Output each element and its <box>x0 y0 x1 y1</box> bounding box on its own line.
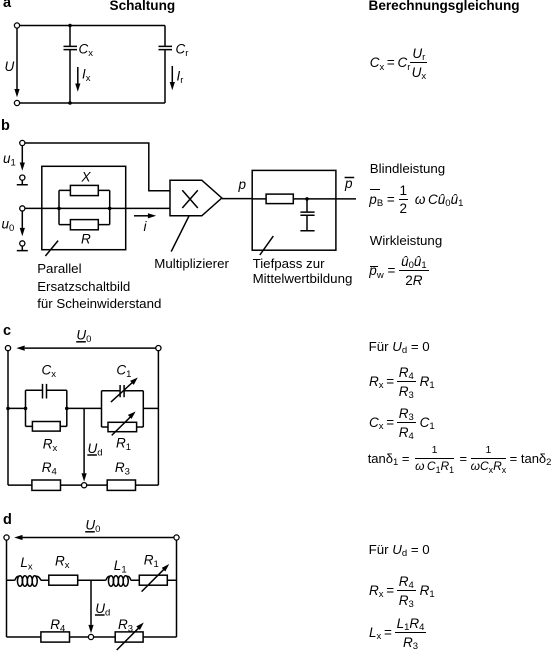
label Tiefpass zur Mittelwertbildung <box>253 256 353 287</box>
terminal u0 bottom with bar <box>17 241 28 251</box>
current arrow Ir <box>170 66 175 90</box>
label Wirkleistung <box>370 234 442 248</box>
node dot c left <box>6 407 10 411</box>
wire c right side <box>157 351 159 485</box>
wire u0 to parallel network <box>25 207 59 209</box>
label Blindleistung <box>370 162 445 176</box>
node dot left <box>57 207 61 211</box>
section label a <box>3 0 11 10</box>
terminal d top-left <box>4 535 9 540</box>
equation Lx = L1R4/R3 <box>369 616 426 650</box>
wire u1 to multiplier <box>25 143 170 191</box>
node dot combo1 left <box>24 407 28 411</box>
node dot combo1 right <box>65 407 69 411</box>
capacitor in lowpass <box>300 199 314 231</box>
adjustment arrow R1 d <box>142 564 170 592</box>
pointer line multiplier <box>171 216 189 251</box>
terminal d top-right <box>174 535 179 540</box>
svg-text:i: i <box>144 219 148 234</box>
arrow Ud d <box>88 625 93 633</box>
resistor R4 box d <box>41 632 70 642</box>
svg-text:Rx: Rx <box>55 554 70 572</box>
resistor R1 box <box>108 422 137 431</box>
arrow Ud c <box>82 473 87 481</box>
wire d left side <box>6 540 8 637</box>
label Multiplizierer <box>154 257 229 271</box>
equation Cx = R3/R4 C1 <box>369 406 435 440</box>
equation Cx = Cr Ur/Ux <box>370 46 428 80</box>
circuit a: bottom wire <box>20 102 165 104</box>
terminal u0 top <box>20 206 25 211</box>
box lowpass filter <box>252 170 336 250</box>
adjustment arrow R3 d <box>117 623 144 651</box>
terminal a bottom-left <box>14 100 19 105</box>
wire Ud tap c <box>83 408 85 473</box>
bottom wire d <box>7 636 177 638</box>
wire c left side <box>7 351 9 485</box>
resistor R3 box d <box>115 632 143 642</box>
node dot right <box>108 207 112 211</box>
terminal c top-left <box>5 346 10 351</box>
wire between combos <box>67 407 102 409</box>
bottom wire c <box>8 484 158 486</box>
terminal c top-right <box>156 346 161 351</box>
label Ud d <box>95 601 110 619</box>
capacitor Cx with parallel Rx frame <box>26 384 67 427</box>
wire combo2 to right <box>143 407 158 409</box>
resistor R branch <box>59 220 110 230</box>
svg-text:X: X <box>81 170 92 185</box>
label Fuer Ud = 0 (d) <box>369 543 430 557</box>
section label d <box>3 514 12 527</box>
pointer line lowpass <box>260 236 274 255</box>
pointer line parallel box <box>45 241 58 256</box>
heading Berechnungsgleichung <box>369 0 520 12</box>
wire to Cx combo <box>8 407 26 409</box>
equation Rx = R4/R3 R1 (c) <box>369 365 435 399</box>
voltage arrow u0 <box>20 211 25 236</box>
current arrow i <box>134 213 156 218</box>
terminal a top-left <box>14 23 19 28</box>
middle branch wire d <box>7 579 177 581</box>
node dot lowpass <box>305 197 309 201</box>
svg-text:p: p <box>238 177 247 192</box>
svg-text:L1: L1 <box>114 558 127 576</box>
svg-text:Lx: Lx <box>20 555 33 573</box>
label Parallel Ersatzschaltbild fuer Scheinwiderstand <box>37 260 161 312</box>
heading Schaltung <box>110 0 176 12</box>
svg-text:Cr: Cr <box>176 42 189 60</box>
reactance X branch <box>59 185 110 195</box>
voltage arrow U0 c <box>16 346 155 351</box>
svg-text:R4: R4 <box>42 460 57 478</box>
svg-text:R3: R3 <box>118 617 133 635</box>
svg-text:R1: R1 <box>144 553 159 571</box>
adjustment arrow C1 <box>111 378 138 403</box>
overbar pw <box>370 266 378 267</box>
parallel network right stub <box>109 190 111 224</box>
label U0 bridge c <box>76 328 91 346</box>
svg-text:Rx: Rx <box>43 437 58 455</box>
label Ud c <box>87 441 102 459</box>
current arrow Ix <box>75 67 80 92</box>
multiplier cross <box>182 190 198 208</box>
svg-text:R4: R4 <box>50 617 65 635</box>
section label c <box>3 325 11 338</box>
terminal u1 top <box>20 140 25 145</box>
equation pw = u0u1/2R <box>369 254 428 288</box>
voltage arrow u1 <box>20 146 25 171</box>
svg-text:R1: R1 <box>116 436 131 454</box>
svg-text:Ix: Ix <box>82 67 91 85</box>
voltage arrow U <box>14 28 19 97</box>
equation tan d1 = 1/(wC1R1) = 1/(wCxRx) = tan d2 <box>368 445 552 474</box>
svg-text:Cx: Cx <box>79 42 94 60</box>
wire through parallel network <box>59 207 170 209</box>
section label b <box>1 120 10 133</box>
node dot a bottom <box>68 101 72 105</box>
terminal c bottom <box>82 483 87 488</box>
wire Ud tap d <box>90 580 92 625</box>
label Fuer Ud = 0 (c) <box>369 340 430 354</box>
wire d right side <box>176 540 178 637</box>
wire through lowpass <box>252 198 356 200</box>
svg-text:u1: u1 <box>3 151 16 169</box>
capacitor Cx branch <box>64 26 78 104</box>
inductor Lx <box>15 576 41 586</box>
svg-text:u0: u0 <box>2 217 15 235</box>
svg-text:Cx: Cx <box>42 362 57 380</box>
resistor R4 box c <box>32 480 61 490</box>
svg-text:R: R <box>81 231 91 246</box>
label U0 bridge d <box>85 518 100 536</box>
resistor Rx box <box>32 422 60 432</box>
svg-text:Ir: Ir <box>177 69 184 87</box>
circuit a: top wire <box>20 25 165 27</box>
capacitor C1 with parallel R1 frame <box>102 385 144 427</box>
resistor in lowpass <box>266 194 293 204</box>
voltage arrow U0 d <box>14 535 174 540</box>
terminal u1 bottom with bar <box>17 175 28 185</box>
adjustment arrow R1 <box>112 412 136 436</box>
terminal d bottom <box>88 634 93 639</box>
resistor Rx box d <box>49 575 78 585</box>
equation Rx = R4/R3 R1 (d) <box>369 574 435 608</box>
resistor R3 box c <box>107 480 135 490</box>
equation pB = 1/2 omega C u0 u1 <box>369 183 463 217</box>
svg-text:R3: R3 <box>115 460 130 478</box>
wire multiplier to lowpass <box>222 198 252 200</box>
parallel network left stub <box>58 190 60 224</box>
resistor R1 box d <box>139 575 167 585</box>
svg-text:U: U <box>5 59 15 74</box>
node dot a top <box>68 24 72 28</box>
svg-text:C1: C1 <box>116 363 131 381</box>
label p-bar output <box>344 176 354 191</box>
inductor L1 <box>106 576 131 586</box>
overbar pB <box>370 189 380 190</box>
multiplier symbol <box>170 180 222 216</box>
box parallel equivalent circuit <box>42 166 126 249</box>
capacitor Cr branch <box>159 26 173 104</box>
